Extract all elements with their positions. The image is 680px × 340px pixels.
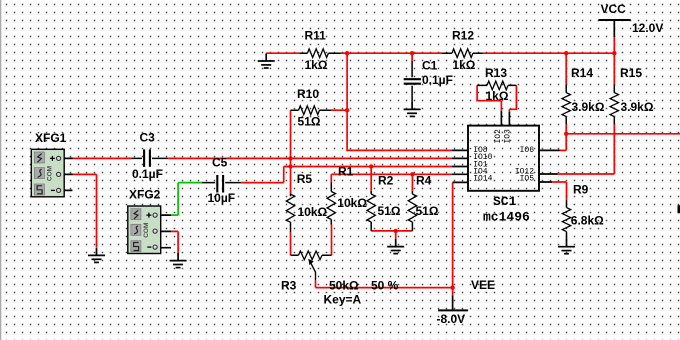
svg-text:R13: R13 bbox=[485, 66, 507, 80]
function generator XFG2 bbox=[128, 188, 161, 254]
svg-text:VCC: VCC bbox=[601, 2, 627, 16]
wire R2 top bbox=[370, 167, 372, 191]
wire R4 top bbox=[411, 174, 413, 191]
capacitor C5 bbox=[202, 155, 241, 205]
wire IC pin stubs right bbox=[539, 150, 560, 182]
ground near R11 bbox=[258, 54, 275, 69]
node R2 bus3 junction bbox=[369, 164, 373, 168]
node R10 junction bbox=[345, 108, 349, 112]
svg-text:R5: R5 bbox=[297, 172, 313, 186]
resistor R11 bbox=[300, 29, 341, 72]
svg-text:IO2: IO2 bbox=[494, 129, 503, 144]
resistor R5 bbox=[286, 172, 327, 232]
svg-text:10µF: 10µF bbox=[208, 191, 236, 205]
svg-text:6.8kΩ: 6.8kΩ bbox=[571, 213, 604, 227]
ground below R9 bbox=[558, 239, 575, 254]
node R11 right junction bbox=[345, 51, 349, 55]
wire pin5 down to VEE bbox=[452, 182, 454, 287]
resistor R4 bbox=[408, 174, 439, 231]
svg-text:R3: R3 bbox=[281, 278, 297, 292]
wire R13 left loop bbox=[477, 85, 501, 110]
svg-text:51Ω: 51Ω bbox=[416, 204, 439, 218]
svg-text:VEE: VEE bbox=[471, 278, 495, 292]
svg-text:C3: C3 bbox=[140, 130, 156, 144]
wire XFG1 plus to C3 bbox=[73, 157, 131, 159]
resistor R10 bbox=[291, 87, 332, 129]
svg-text:IO3: IO3 bbox=[503, 129, 512, 144]
wire XFG1 pin stubs bbox=[62, 158, 73, 190]
svg-text:IO5: IO5 bbox=[520, 175, 535, 184]
svg-text:COM: COM bbox=[46, 166, 53, 181]
wire IO8 right to R9 bbox=[552, 182, 567, 200]
svg-text:50kΩ: 50kΩ bbox=[329, 278, 359, 292]
svg-text:IO14: IO14 bbox=[473, 175, 492, 184]
node R5 bus2 junction bbox=[288, 156, 292, 160]
svg-text:10kΩ: 10kΩ bbox=[337, 196, 367, 210]
svg-text:51Ω: 51Ω bbox=[298, 115, 321, 129]
wire C3 to pin2 bbox=[168, 157, 452, 159]
wire XFG2 COM to ground bbox=[171, 231, 178, 255]
node R2R4 ground junction bbox=[394, 229, 398, 233]
svg-text:IO6: IO6 bbox=[520, 146, 535, 155]
svg-text:1kΩ: 1kΩ bbox=[305, 58, 328, 72]
svg-text:1kΩ: 1kΩ bbox=[486, 89, 509, 103]
svg-text:3.9kΩ: 3.9kΩ bbox=[621, 100, 654, 114]
wire XFG2 pin stubs bbox=[159, 215, 172, 248]
node R14 top junction bbox=[564, 51, 568, 55]
wire C5 to corner bbox=[241, 167, 284, 183]
ground below XFG1 bbox=[88, 248, 105, 263]
svg-text:3.9kΩ: 3.9kΩ bbox=[572, 100, 605, 114]
wire pot wiper to VEE rail bbox=[315, 280, 317, 287]
wire top rail R11 to R12 bbox=[341, 52, 442, 54]
wire XFG2 plus to C5 green bbox=[171, 183, 202, 216]
svg-text:SC1: SC1 bbox=[493, 194, 517, 209]
ground below R2 R4 bbox=[387, 239, 404, 254]
node VCC junction bbox=[612, 51, 616, 55]
svg-text:1kΩ: 1kΩ bbox=[452, 58, 475, 72]
svg-text:R1: R1 bbox=[338, 165, 354, 179]
svg-text:R14: R14 bbox=[571, 66, 593, 80]
clipped label fragment at right edge bbox=[678, 205, 680, 213]
svg-text:mc1496: mc1496 bbox=[483, 210, 530, 225]
wire R1 top corner bus to pin4 bbox=[331, 174, 452, 182]
wire VCC stem upper bbox=[613, 20, 615, 37]
svg-text:R9: R9 bbox=[573, 183, 589, 197]
power VEE bbox=[437, 278, 496, 326]
power VCC bbox=[599, 2, 664, 35]
resistor R15 bbox=[610, 66, 654, 124]
svg-text:-8.0V: -8.0V bbox=[437, 312, 466, 326]
wire pin1 from R11 node bbox=[347, 53, 452, 150]
ground below C1 bbox=[404, 102, 421, 117]
resistor R12 bbox=[442, 29, 483, 72]
svg-text:10kΩ: 10kΩ bbox=[298, 205, 328, 219]
wire R10 right to vertical bbox=[331, 109, 347, 111]
svg-text:R12: R12 bbox=[452, 29, 474, 43]
wire VCC down to R15 top bbox=[613, 53, 615, 84]
svg-text:12.0V: 12.0V bbox=[632, 21, 663, 35]
resistor R13 bbox=[477, 66, 516, 103]
svg-text:0.1µF: 0.1µF bbox=[132, 167, 163, 181]
node R4 bus4 junction bbox=[410, 172, 414, 176]
ground below XFG2 bbox=[170, 253, 187, 268]
svg-text:R2: R2 bbox=[378, 174, 394, 188]
svg-text:50 %: 50 % bbox=[371, 278, 399, 292]
node VEE junction bbox=[450, 285, 454, 289]
resistor R9 bbox=[562, 183, 604, 241]
wire IC pin stubs left bbox=[452, 150, 468, 182]
wire VEE node to symbol bbox=[452, 288, 454, 296]
wire R14 bottom node to right edge bbox=[566, 133, 680, 135]
svg-text:R11: R11 bbox=[305, 29, 327, 43]
svg-text:XFG2: XFG2 bbox=[129, 188, 161, 202]
resistor R14 bbox=[562, 66, 605, 124]
wire top rail R12 to VCC bbox=[483, 52, 614, 54]
wire IO6 to R14 bottom node bbox=[560, 134, 567, 151]
wire XFG1 COM to ground bbox=[73, 174, 97, 247]
wire R15 bottom down bbox=[613, 124, 615, 174]
wire IC pin stubs top bbox=[501, 111, 509, 126]
svg-text:Key=A: Key=A bbox=[324, 292, 362, 306]
wire R1 bottom to pot right bbox=[331, 225, 333, 256]
wire C1 top stub bbox=[411, 53, 413, 61]
svg-text:R10: R10 bbox=[297, 87, 319, 101]
svg-text:R4: R4 bbox=[416, 174, 432, 188]
wire VEE rail bbox=[316, 287, 453, 289]
wire R14 bottom to node bbox=[565, 124, 567, 134]
svg-text:0.1µF: 0.1µF bbox=[422, 73, 453, 87]
wire R2 R4 bottoms bbox=[371, 231, 412, 240]
wire top rail ground to R11 bbox=[266, 52, 299, 54]
wire R5 bottom to pot left bbox=[290, 232, 292, 255]
svg-text:COM: COM bbox=[143, 223, 150, 238]
wire C5 bus to pin3 bbox=[284, 166, 452, 168]
wire IO12 to R15 bbox=[558, 173, 615, 175]
node C1 top junction bbox=[410, 51, 414, 55]
capacitor C3 bbox=[131, 130, 168, 181]
wire R13 right loop bbox=[509, 85, 516, 112]
capacitor C1 bbox=[404, 58, 453, 102]
wire VEE stem bbox=[452, 295, 454, 310]
svg-text:C1: C1 bbox=[422, 58, 438, 72]
node R14 bottom junction bbox=[564, 132, 568, 136]
svg-text:XFG1: XFG1 bbox=[35, 131, 67, 145]
svg-text:51Ω: 51Ω bbox=[378, 204, 401, 218]
wire R10 left down through buses to R5 bbox=[290, 110, 292, 193]
resistor R1 bbox=[327, 165, 367, 225]
svg-text:R15: R15 bbox=[620, 66, 642, 80]
canvas left edge bbox=[0, 0, 1, 340]
wire VCC stem lower bbox=[613, 37, 615, 53]
wire R14 top branch bbox=[565, 53, 567, 84]
resistor R2 bbox=[367, 174, 401, 231]
op-amp U1 IC SC1 mc1496 bbox=[468, 126, 539, 225]
svg-text:C5: C5 bbox=[212, 155, 228, 169]
potentiometer R3 bbox=[281, 251, 399, 306]
node R5 bus3 junction bbox=[288, 164, 292, 168]
function generator XFG1 bbox=[31, 131, 66, 197]
